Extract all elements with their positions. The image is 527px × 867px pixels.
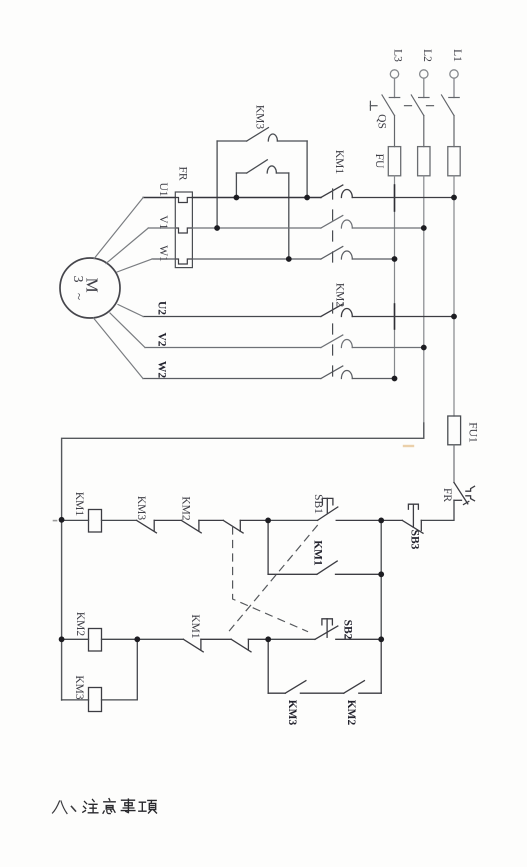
wire speck near rail	[54, 520, 57, 522]
wire rail to KM1 coil	[62, 519, 89, 521]
wire node to SB1	[268, 519, 317, 521]
wire FR to SB3	[421, 500, 454, 520]
contactor KM2 main contact pole 2	[321, 335, 424, 348]
motor lead W2	[94, 318, 144, 379]
mechanical link SB2-NC to SB2 dashed	[233, 527, 308, 632]
KM1 aux self-hold contact	[268, 520, 381, 574]
caption glyph 八	[53, 801, 68, 814]
caption glyph 意	[103, 799, 115, 814]
svg-text:KM2: KM2	[345, 700, 357, 726]
control feed wire top	[62, 438, 424, 700]
svg-text:SB1: SB1	[312, 494, 324, 514]
svg-text:KM1: KM1	[311, 540, 323, 566]
motor lead W1	[117, 259, 152, 272]
wire L2 vertical run	[423, 176, 425, 439]
wire KM3 coil branch	[62, 639, 138, 700]
svg-text:KM3: KM3	[135, 496, 147, 521]
svg-text:W2: W2	[156, 361, 168, 379]
contactor KM3 star contact 1	[217, 128, 307, 228]
wire U2 row	[143, 316, 321, 318]
wire L2 dark corner segment	[423, 423, 425, 438]
svg-text:V1: V1	[157, 215, 169, 229]
junction dots control	[59, 517, 384, 642]
motor M	[60, 258, 120, 318]
wire node to SB2	[268, 638, 315, 640]
control fuse FU1	[448, 416, 461, 445]
svg-text:KM1: KM1	[73, 492, 85, 517]
thermal overload FR box	[175, 192, 192, 268]
wire V1 row	[148, 227, 321, 229]
svg-text:SB2: SB2	[342, 620, 354, 640]
svg-text:L2: L2	[421, 49, 433, 62]
contactor KM2 main contact pole 3	[321, 366, 395, 379]
terminal L3	[390, 70, 398, 98]
svg-text:KM3: KM3	[286, 700, 298, 726]
junction dots power	[214, 195, 457, 382]
thermal relay FR NC contact	[454, 483, 475, 505]
fuse FU pole 3	[448, 147, 460, 176]
wire L1 below FU1	[453, 445, 455, 483]
svg-text:KM2: KM2	[334, 283, 346, 308]
svg-text:FU: FU	[373, 154, 385, 169]
svg-text:~: ~	[72, 293, 87, 300]
fuse FU pole 1	[388, 147, 400, 176]
FR heater element U1	[175, 198, 192, 203]
KM2 NC interlock contact	[181, 520, 223, 532]
crossing emphasis on L3 at U2 row	[394, 304, 396, 329]
right rail	[380, 520, 382, 639]
wire rail to KM2 coil	[62, 638, 89, 640]
svg-text:KM3: KM3	[254, 105, 266, 130]
disconnect switch QS pole 3	[442, 95, 460, 147]
svg-text:QS: QS	[376, 114, 388, 129]
SB1 NC contact on KM2 rung	[231, 639, 268, 652]
FR heater element V1	[175, 228, 192, 233]
SB2 NC contact on KM1 rung	[223, 520, 268, 533]
caption glyph 事	[121, 799, 135, 813]
fuse FU pole 2	[418, 147, 430, 176]
contactor KM1 main contact pole 1	[321, 185, 454, 198]
KM2 aux NO contact	[344, 639, 382, 693]
motor lead V1	[106, 228, 148, 264]
motor lead U2	[118, 305, 143, 317]
mechanical link SB1 to SB1-NC dashed	[228, 526, 318, 634]
KM2 linkage dashed	[332, 303, 334, 380]
QS linkage dashed	[405, 105, 436, 107]
motor lead U1	[94, 198, 143, 259]
wire U1 row	[143, 197, 321, 199]
caption glyph 注	[83, 800, 98, 813]
svg-text:FR: FR	[441, 488, 453, 502]
svg-text:KM1: KM1	[333, 150, 345, 175]
KM1 NC interlock contact	[183, 639, 231, 652]
svg-text:U2: U2	[156, 301, 168, 315]
svg-text:L1: L1	[451, 49, 463, 62]
svg-text:FR: FR	[177, 166, 189, 180]
contactor KM2 main contact pole 1	[321, 304, 454, 317]
svg-text:KM1: KM1	[189, 614, 201, 639]
wire L3 vertical run	[394, 176, 396, 379]
terminal L2	[420, 70, 428, 98]
QS handle symbol	[370, 101, 377, 110]
FR heater element W1	[175, 259, 192, 264]
caption glyph 、	[72, 807, 76, 812]
svg-text:SB3: SB3	[409, 530, 421, 550]
svg-text:KM3: KM3	[73, 675, 85, 700]
wire W1 row	[152, 258, 321, 260]
svg-text:KM2: KM2	[74, 612, 86, 637]
disconnect switch QS pole 2	[411, 95, 429, 147]
wire W2 row	[143, 378, 321, 380]
KM3 NC interlock contact	[137, 520, 182, 532]
orange artifact	[404, 445, 413, 447]
svg-text:V2: V2	[156, 332, 168, 346]
svg-text:L3: L3	[392, 49, 404, 62]
wire KM1 coil to KM3 NC	[102, 519, 137, 521]
terminal L1	[450, 70, 458, 98]
disconnect switch QS pole 1	[382, 95, 400, 147]
KM3 coil	[89, 688, 102, 712]
svg-text:U1: U1	[157, 182, 169, 196]
wire V2 row	[145, 347, 321, 349]
KM1 coil	[89, 510, 102, 533]
start button SB1	[318, 498, 382, 520]
svg-text:3: 3	[70, 276, 85, 283]
caption glyph 项	[139, 800, 157, 813]
start button SB2	[315, 619, 381, 640]
svg-text:KM2: KM2	[179, 496, 191, 521]
wire KM2 coil to node	[102, 638, 184, 640]
motor lead V2	[110, 313, 145, 348]
wire L1 vertical run	[453, 176, 455, 416]
KM2 coil	[89, 629, 102, 652]
KM3 aux NO contact	[268, 639, 344, 693]
svg-text:FU1: FU1	[467, 422, 479, 443]
svg-text:W1: W1	[157, 245, 169, 262]
crossing emphasis on L3 at U1 row	[394, 185, 396, 211]
contactor KM3 star contact 2	[236, 160, 288, 259]
stop button SB3	[381, 504, 423, 533]
KM1 linkage dashed	[332, 189, 334, 262]
contactor KM1 main contact pole 2	[321, 216, 424, 229]
contactor KM1 main contact pole 3	[321, 247, 395, 260]
